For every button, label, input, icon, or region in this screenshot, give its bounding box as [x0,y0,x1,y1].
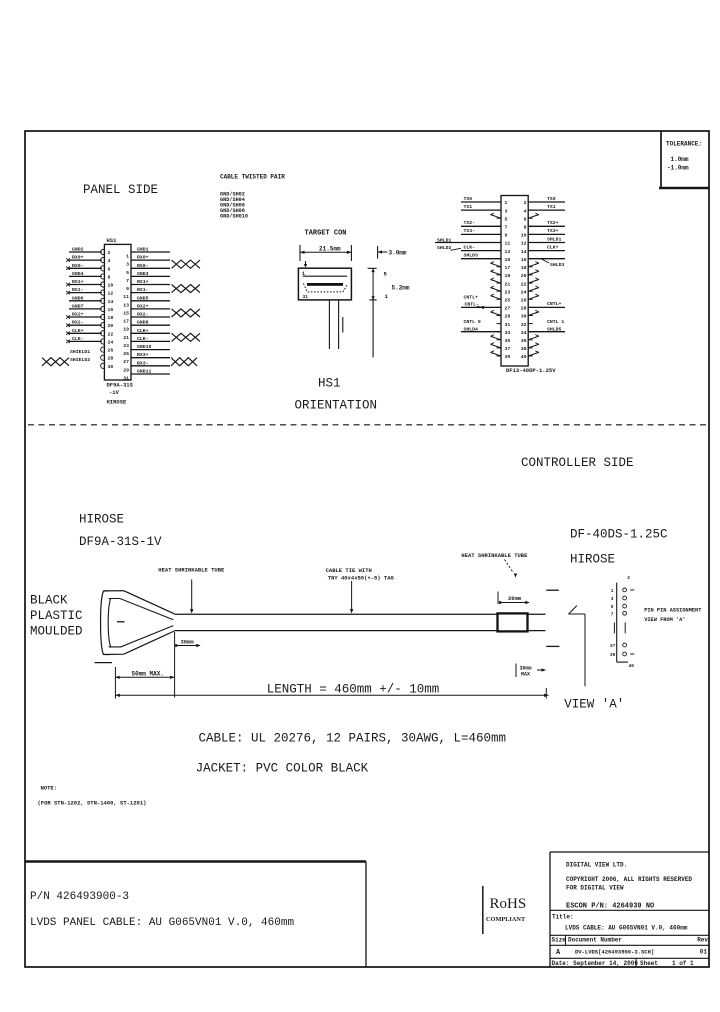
svg-text:GND7: GND7 [72,303,84,309]
pin stub J2 pin 33 [497,331,502,333]
svg-text:-1.0mm: -1.0mm [667,165,689,172]
pin stub J2 pin 32 [528,323,533,325]
no-connect J2 pin 35 [491,335,502,340]
pin stub J2 pin 6 [528,217,533,219]
size/doc/rev row [550,935,709,957]
view A leader arrow [569,606,586,687]
svg-text:37: 37 [610,643,616,649]
svg-text:CLK+: CLK+ [547,244,559,250]
moulded funnel outline [103,591,174,655]
no-connect J2 pin 20 [528,270,539,275]
pin stub J2 pin 39 [497,355,502,357]
dimension 50mm MAX [115,667,174,699]
wire J2 pin 28 right [528,301,565,307]
CNTL 0 / SHLD4 labels left [464,319,481,333]
svg-text:CLK+: CLK+ [137,328,149,334]
svg-text:SHIELD2: SHIELD2 [70,357,90,363]
pin stub J2 pin 34 [528,331,533,333]
svg-text:11: 11 [505,241,511,247]
svg-text:GND5: GND5 [137,295,149,301]
no-connect J2 pin 36 [528,335,539,340]
svg-text:Rev: Rev [697,936,708,943]
svg-text:12: 12 [521,241,527,247]
pin bubble J1 row 2 [101,258,105,263]
cable twisted pair list [220,174,285,220]
svg-text:8: 8 [524,225,527,231]
svg-text:VIEW FROM 'A': VIEW FROM 'A' [644,617,685,623]
pin stub J2 pin 22 [528,282,533,284]
svg-text:NOTE:: NOTE: [41,785,58,792]
pin stub J2 pin 2 [528,201,533,203]
copyright lines [566,876,692,892]
pin stub J2 pin 15 [497,258,502,260]
svg-text:COMPLIANT: COMPLIANT [486,916,526,923]
svg-text:4: 4 [524,208,527,214]
svg-text:SHLD1: SHLD1 [437,237,452,243]
twisted pair RX0 [172,260,201,268]
svg-text:8: 8 [108,274,111,280]
svg-text:CABLE TWISTED PAIR: CABLE TWISTED PAIR [220,174,285,181]
svg-text:1 of 1: 1 of 1 [672,960,694,967]
svg-text:30: 30 [108,364,114,370]
svg-text:HEAT SHRINKABLE TUBE: HEAT SHRINKABLE TUBE [158,567,225,574]
svg-text:39: 39 [610,652,616,658]
pin stub J2 pin 29 [497,315,502,317]
svg-text:TNY 40x4x50(+-5) TAG: TNY 40x4x50(+-5) TAG [328,574,395,581]
wire J1 pin 24 left (CLK-) [69,336,102,342]
no-connect J2 pin 23 [491,286,502,291]
svg-text:Date: September 14, 2006: Date: September 14, 2006 [552,960,639,967]
svg-text:34: 34 [521,330,527,336]
svg-text:PIN PIN ASSIGNMENT: PIN PIN ASSIGNMENT [644,607,702,613]
svg-text:5: 5 [126,270,129,276]
svg-text:23: 23 [505,289,511,295]
svg-text:7: 7 [611,611,614,617]
svg-text:CLK-: CLK- [137,336,149,342]
pin stub J2 pin 12 [528,242,533,244]
connector J2 body [501,196,528,367]
svg-text:Sheet: Sheet [640,960,658,967]
svg-text:GND4: GND4 [72,271,84,277]
svg-text:25: 25 [505,298,511,304]
svg-text:13: 13 [123,302,129,308]
CNTL+/- labels left [464,294,485,309]
no-connect J2 pin 38 [528,343,539,348]
twisted pair RX3 [171,358,197,366]
svg-text:7: 7 [505,225,508,231]
svg-text:RX2+: RX2+ [72,312,84,318]
no-connect J2 pin 5 [491,213,502,218]
wire J2 pin 8 right [528,220,565,226]
svg-text:TOLERANCE:: TOLERANCE: [666,141,702,148]
svg-text:RX2+: RX2+ [137,303,149,309]
svg-text:TX0: TX0 [547,196,556,202]
svg-text:DF9A-31S: DF9A-31S [107,382,134,389]
title row [550,910,709,931]
svg-text:CNTL+: CNTL+ [464,294,479,300]
pin bubble J1 row 15 [101,363,105,368]
svg-text:CLK-: CLK- [72,336,84,342]
cable tie label [326,567,395,614]
pin stub J2 pin 25 [497,298,502,300]
wire J1 pin 4 left (RX0+) [69,255,102,261]
pin bubble J1 row 14 [101,355,105,360]
svg-text:33: 33 [505,330,511,336]
svg-text:DF13-40DP-1.25V: DF13-40DP-1.25V [506,367,556,374]
svg-text:29: 29 [123,367,129,373]
svg-text:COPYRIGHT 2006, ALL RIGHTS RES: COPYRIGHT 2006, ALL RIGHTS RESERVED [566,876,692,883]
svg-text:LVDS PANEL CABLE: AU G065VN01: LVDS PANEL CABLE: AU G065VN01 V.0, 460mm [30,917,294,929]
wire J2 pin 13 left [461,244,501,250]
wire J2 pin 10 right [528,228,565,234]
pin stub J2 pin 24 [528,290,533,292]
svg-text:DF9A-31S-1V: DF9A-31S-1V [79,535,162,549]
svg-text:01: 01 [700,949,708,956]
svg-text:26: 26 [108,348,114,354]
pin stub J2 pin 10 [528,233,533,235]
wire J1 pin 11 right (RX1-) [131,287,170,293]
svg-text:PANEL SIDE: PANEL SIDE [83,183,158,197]
svg-text:18: 18 [108,315,114,321]
pin bubble J1 row 12 [101,339,105,344]
pin stub J2 pin 35 [497,339,502,341]
connector J1 body [104,244,131,380]
svg-text:11: 11 [123,294,129,300]
svg-text:3: 3 [505,208,508,214]
pin stub J2 pin 14 [528,250,533,252]
pin stub J2 pin 23 [497,290,502,292]
pin stub J2 pin 19 [497,274,502,276]
svg-text:35: 35 [505,338,511,344]
base line under connector [95,662,113,664]
wire J1 pin 22 left (CLK+) [69,328,102,334]
wire J2 pin 2 right [528,196,565,202]
pin stub J2 pin 16 [528,258,533,260]
svg-text:TX2+: TX2+ [547,220,559,226]
svg-text:ORIENTATION: ORIENTATION [295,399,378,413]
svg-text:22: 22 [108,331,114,337]
svg-text:21.5mm: 21.5mm [319,246,341,253]
pin bubble J1 row 10 [101,323,105,328]
svg-text:TX1: TX1 [547,204,556,210]
svg-text:27: 27 [123,359,129,365]
svg-text:RX2-: RX2- [72,320,84,326]
svg-text:37: 37 [505,346,511,352]
date/sheet row [550,958,709,967]
pin bubble J1 row 1 [101,249,105,254]
svg-text:RX1-: RX1- [72,287,84,293]
svg-text:Size: Size [552,936,567,943]
svg-text:Title:: Title: [552,914,574,921]
dimension LENGTH = 460mm [115,682,548,698]
svg-text:30: 30 [521,314,527,320]
svg-text:1.0mm: 1.0mm [671,156,689,163]
svg-text:Document Number: Document Number [568,936,622,943]
wire J2 pin 27 left [461,306,501,308]
no-connect J2 pin 30 [528,310,539,315]
svg-text:CNTL+: CNTL+ [547,301,562,307]
CNTL 1 / SHLD5 labels right [547,319,564,333]
svg-text:JACKET: PVC COLOR BLACK: JACKET: PVC COLOR BLACK [196,762,369,776]
svg-text:1: 1 [505,200,508,206]
svg-text:CNTL 0: CNTL 0 [464,319,481,325]
target connector front view [298,268,351,300]
svg-text:CABLE: UL 20276, 12 PAIRS, 30A: CABLE: UL 20276, 12 PAIRS, 30AWG, L=460m… [199,732,507,746]
svg-text:CNTL-: CNTL- [465,302,480,308]
pin stub J2 pin 40 [528,355,533,357]
svg-text:23: 23 [123,343,129,349]
svg-text:TX1: TX1 [464,204,473,210]
polarity tick inside connector [117,621,125,623]
wire J1 pin 31 right (GND11) [131,369,170,375]
wire J1 pin 16 left (GND7) [69,303,102,309]
no-connect x mark pin 6 [66,267,70,271]
title block frame [550,852,709,967]
svg-text:GND11: GND11 [137,369,152,375]
svg-text:CNTL 1: CNTL 1 [547,319,564,325]
no-connect J2 pin 6 [528,213,539,218]
svg-text:30mm: 30mm [181,638,195,645]
connector break marks [546,590,559,646]
svg-text:(FOR STN-1202, STN-1400, ST-12: (FOR STN-1202, STN-1400, ST-1201) [38,800,147,807]
HIROSE DF9A label [79,513,162,550]
no-connect J2 pin 18 [528,262,539,267]
svg-text:TX2-: TX2- [464,220,476,226]
wire J1 pin 14 left (GND6) [69,295,102,301]
svg-text:RX2-: RX2- [137,312,149,318]
svg-text:BLACK: BLACK [30,594,68,608]
svg-text:27: 27 [505,306,511,312]
wire J1 pin 15 right (RX2+) [131,303,170,309]
wire J1 pin 25 right (GND10) [131,344,170,350]
svg-text:31: 31 [303,294,309,300]
pin bubble J1 row 4 [101,274,105,279]
svg-text:14: 14 [521,249,527,255]
wire J1 pin 5 right (RX0-) [131,263,170,269]
svg-text:2: 2 [108,250,111,256]
svg-text:RX1+: RX1+ [72,279,84,285]
side view 5.2mm dimension [368,268,410,300]
wire J1 pin 12 left (RX1-) [69,287,102,293]
svg-text:PLASTIC: PLASTIC [30,609,83,623]
pin stub J2 pin 8 [528,225,533,227]
svg-text:LENGTH = 460mm +/- 10mm: LENGTH = 460mm +/- 10mm [267,682,440,696]
svg-text:TX3-: TX3- [464,228,476,234]
svg-text:RX1-: RX1- [137,287,149,293]
svg-text:RX0+: RX0+ [137,255,149,261]
pin bubble J1 row 13 [101,347,105,352]
no-connect J2 pin 40 [528,351,539,356]
wire J1 pin 1 right (GND1) [131,247,170,253]
no-connect J2 pin 39 [491,351,502,356]
HS1 ORIENTATION label [295,377,378,413]
wire J1 pin 23 right (CLK-) [131,336,170,342]
no-connect x mark pin 10 [66,283,70,287]
RoHS compliant mark [483,886,526,934]
svg-text:GND2: GND2 [72,247,84,253]
pin stub J2 pin 30 [528,315,533,317]
svg-text:CABLE TIE WITH: CABLE TIE WITH [326,567,372,574]
svg-text:28: 28 [108,356,114,362]
wire J2 pin 11 left [435,242,501,244]
pin stub J2 pin 17 [497,266,502,268]
P/N block [25,862,366,968]
BLACK PLASTIC MOULDED label [30,594,83,639]
svg-text:RX1+: RX1+ [137,279,149,285]
no-connect J2 pin 17 [491,262,502,267]
wire J1 pin 6 left (RX0-) [69,263,102,269]
svg-text:RoHS: RoHS [490,896,527,912]
svg-text:MOULDED: MOULDED [30,625,83,639]
svg-text:HEAT SHRINKABLE TUBE: HEAT SHRINKABLE TUBE [461,552,528,559]
pin bubble J1 row 3 [101,266,105,271]
svg-text:DIGITAL VIEW LTD.: DIGITAL VIEW LTD. [566,862,627,869]
svg-text:5.2mm: 5.2mm [392,285,410,292]
svg-text:HIROSE: HIROSE [107,399,128,406]
svg-text:CONTROLLER SIDE: CONTROLLER SIDE [521,456,634,470]
pin stub J2 pin 5 [497,217,502,219]
svg-text:SHIELD1: SHIELD1 [70,349,90,355]
svg-text:40: 40 [521,354,527,360]
heat shrink tube on cable [498,613,528,631]
svg-text:19: 19 [123,327,129,333]
drawing border frame [25,131,709,967]
heat shrinkable tube (right) label [461,552,528,578]
wire J2 pin 15 left [461,253,501,259]
pin stub J2 pin 4 [528,209,533,211]
svg-text:13: 13 [505,249,511,255]
wire J1 pin 21 right (CLK+) [131,328,170,334]
svg-text:RX0-: RX0- [72,263,84,269]
pin stub J2 pin 28 [528,306,533,308]
pin stub J2 pin 26 [528,298,533,300]
svg-text:GND10: GND10 [137,344,152,350]
svg-text:CLK-: CLK- [464,244,476,250]
svg-text:DF-40DS-1.25C: DF-40DS-1.25C [570,528,668,542]
svg-text:CLK+: CLK+ [72,328,84,334]
dimension 21.5mm [300,245,351,261]
wire J1 pin 19 right (GND8) [131,320,170,326]
side view cable lead [372,300,374,358]
svg-text:SHLD5: SHLD5 [547,327,562,333]
twisted pair shield left [42,358,69,366]
svg-text:17: 17 [505,265,511,271]
wire J1 pin 18 left (RX2+) [69,312,102,318]
dimension 30mm MAX (right) [516,664,546,678]
svg-text:3.0mm: 3.0mm [389,250,407,257]
svg-text:16: 16 [108,307,114,313]
wire J1 pin 3 right (RX0+) [131,255,170,261]
wire J1 pin 10 left (RX1+) [69,279,102,285]
svg-text:38: 38 [521,346,527,352]
svg-text:SHLD1: SHLD1 [547,236,562,242]
svg-text:LVDS CABLE: AU G065VN01 V.0, 4: LVDS CABLE: AU G065VN01 V.0, 460mm [565,925,688,932]
pin bubble J1 row 6 [101,290,105,295]
svg-text:21: 21 [505,281,511,287]
wire J1 pin 20 left (RX2-) [69,320,102,326]
svg-text:RX0-: RX0- [137,263,149,269]
svg-text:RX0+: RX0+ [72,255,84,261]
svg-text:9: 9 [126,286,129,292]
no-connect x mark pin 20 [66,323,70,327]
svg-text:16: 16 [521,257,527,263]
wire J2 pin 7 left [461,220,501,226]
svg-text:7: 7 [126,278,129,284]
SHLD2 label far left with tie [437,245,461,251]
heat shrinkable tube (left) label [158,567,225,614]
wire J2 pin 3 left [461,204,501,210]
svg-text:12: 12 [108,291,114,297]
tolerance box [659,131,709,188]
pin bubble J1 row 5 [101,282,105,287]
svg-text:6: 6 [524,216,527,222]
svg-text:-1V: -1V [109,389,120,396]
svg-text:4: 4 [108,258,111,264]
pin stub J2 pin 27 [497,306,502,308]
wire J2 pin 12 right [528,236,565,242]
svg-text:20mm: 20mm [508,595,522,602]
svg-text:GND6: GND6 [72,295,84,301]
no-connect J2 pin 25 [491,294,502,299]
svg-text:31: 31 [505,322,511,328]
no-connect J2 pin 26 [528,294,539,299]
svg-text:MAX: MAX [521,671,530,677]
svg-text:RX3+: RX3+ [137,352,149,358]
wire J2 pin 4 right [528,204,565,210]
svg-text:6: 6 [108,266,111,272]
svg-text:36: 36 [521,338,527,344]
svg-text:18: 18 [521,265,527,271]
svg-text:ESCON P/N: 4264939 NO: ESCON P/N: 4264939 NO [566,903,654,911]
pin stub J2 pin 20 [528,274,533,276]
wire J2 pin 33 left [461,331,501,333]
moulded connector body [101,591,111,655]
svg-text:FOR DIGITAL VIEW: FOR DIGITAL VIEW [566,885,624,892]
no-connect x mark pin 4 [66,258,70,262]
pin assignment note [644,607,702,623]
no-connect J2 pin 19 [491,270,502,275]
svg-text:24: 24 [108,339,114,345]
wire J1 pin 7 right (GND3) [131,271,170,277]
svg-text:9: 9 [505,233,508,239]
wire J1 pin 17 right (RX2-) [131,312,170,318]
svg-text:26: 26 [521,298,527,304]
no-connect J2 pin 21 [491,278,502,283]
pin stub J2 pin 31 [497,323,502,325]
svg-text:40: 40 [629,663,635,669]
svg-text:22: 22 [521,281,527,287]
twisted pair RX1 [172,285,201,293]
svg-text:HIROSE: HIROSE [570,553,615,567]
pin stub J2 pin 21 [497,282,502,284]
svg-text:2: 2 [627,575,630,581]
wire J1 pin 2 left (GND2) [69,247,102,253]
svg-text:VIEW 'A': VIEW 'A' [564,698,624,712]
pin stub J2 pin 11 [497,242,502,244]
svg-text:SHLD2: SHLD2 [437,245,452,251]
pin bubble J1 row 11 [101,331,105,336]
svg-text:20: 20 [521,273,527,279]
no-connect J2 pin 24 [528,286,539,291]
view A pin assignment detail [610,575,634,669]
svg-text:1: 1 [611,588,614,594]
no-connect x mark pin 22 [66,332,70,336]
pin bubble J1 row 7 [101,298,105,303]
pin stub J2 pin 1 [497,201,502,203]
svg-text:15: 15 [505,257,511,263]
pin bubble J1 row 9 [101,314,105,319]
svg-text:3: 3 [126,262,129,268]
